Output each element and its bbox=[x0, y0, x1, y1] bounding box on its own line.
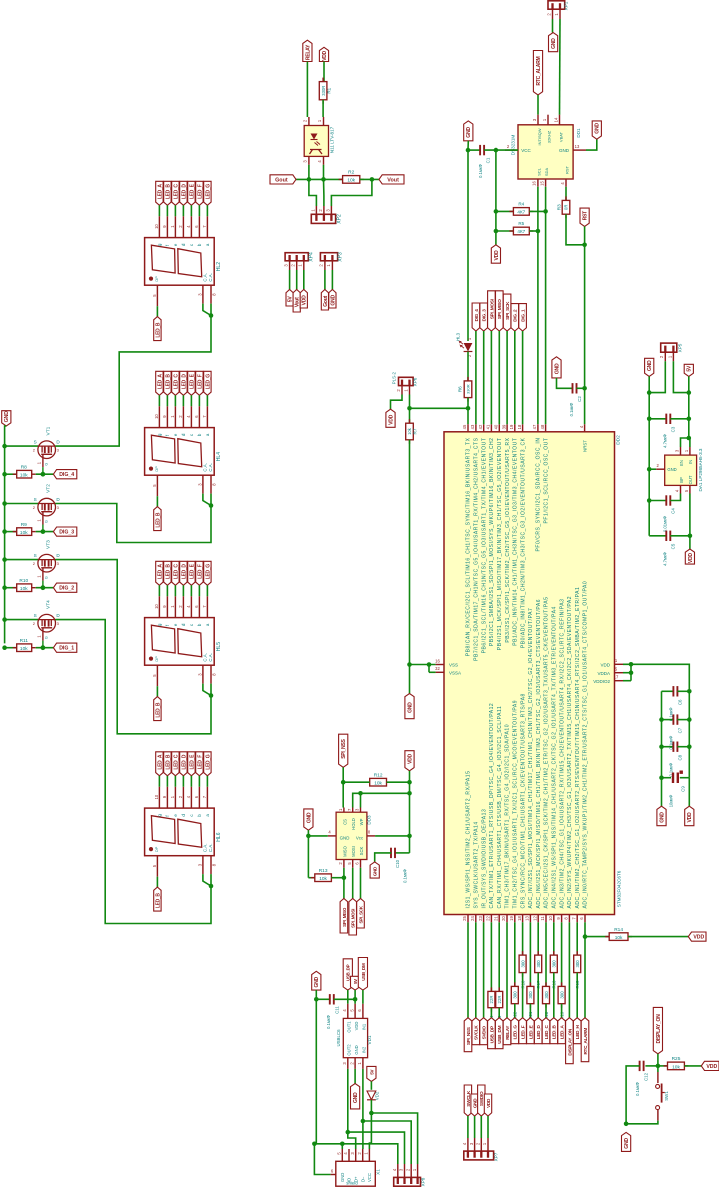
wire segment bbox=[156, 877, 158, 887]
svg-text:DD2: DD2 bbox=[616, 435, 622, 445]
svg-text:G: G bbox=[45, 636, 49, 639]
net label RELAY bbox=[303, 40, 312, 61]
wire D- branch bbox=[362, 1069, 364, 1121]
svg-text:24: 24 bbox=[470, 916, 475, 921]
svg-text:SPI_NSS: SPI_NSS bbox=[341, 738, 347, 758]
svg-text:VDDA: VDDA bbox=[597, 671, 610, 676]
wire USB_DM to pin6 bbox=[362, 990, 364, 1004]
resistor R11 10k bbox=[5, 647, 17, 649]
net label 5V bbox=[351, 976, 360, 990]
resistor R3 0R bbox=[565, 187, 567, 201]
wire segment bbox=[561, 922, 563, 986]
svg-text:LED_C: LED_C bbox=[173, 754, 179, 770]
svg-text:PB6/I2C1_SCL/TIM16_CH1N/TSC_G5: PB6/I2C1_SCL/TIM16_CH1N/TSC_G5_IO3/USART… bbox=[481, 438, 487, 654]
svg-text:VT3: VT3 bbox=[46, 540, 52, 549]
pin 9 bbox=[166, 596, 168, 617]
net label LED_B bbox=[164, 371, 171, 395]
svg-text:18: 18 bbox=[517, 424, 522, 429]
net label LED_G bbox=[204, 181, 211, 205]
svg-text:43: 43 bbox=[470, 424, 475, 429]
capacitor C4 0.01uF (BP) bbox=[649, 500, 666, 502]
svg-text:WP: WP bbox=[359, 818, 364, 825]
connector XP7 bbox=[464, 1151, 494, 1160]
wire segment bbox=[514, 922, 516, 986]
pin 45 bbox=[467, 424, 469, 432]
svg-text:TIM1_CH2/TSC_G4_IO1/USART1_TX/: TIM1_CH2/TSC_G4_IO1/USART1_TX/I2C1_SCL/R… bbox=[513, 700, 519, 909]
svg-text:LED_B: LED_B bbox=[155, 702, 161, 718]
svg-text:C.A.: C.A. bbox=[203, 844, 208, 853]
transistor VT2 (P-MOSFET) bbox=[38, 498, 56, 516]
net label SPI_NSS bbox=[464, 1018, 472, 1052]
net label LED_F bbox=[196, 752, 203, 776]
wire SCL to MCU PF1 bbox=[537, 187, 539, 425]
wire segment label to pin bbox=[198, 205, 200, 216]
svg-text:LED_E: LED_E bbox=[189, 373, 195, 389]
resistor R19 300 bbox=[561, 982, 563, 986]
svg-text:LED_E: LED_E bbox=[189, 183, 195, 199]
svg-text:GND: GND bbox=[624, 1138, 630, 1149]
svg-text:SPI_SCK: SPI_SCK bbox=[505, 301, 510, 320]
wire segment bbox=[568, 922, 570, 1017]
net label USB_DM bbox=[358, 958, 367, 991]
wire segment bbox=[156, 686, 158, 696]
svg-text:16: 16 bbox=[435, 658, 440, 663]
net label GND bbox=[657, 806, 666, 826]
wire gate node bbox=[36, 531, 54, 533]
net label LED_C bbox=[542, 1018, 550, 1044]
wire gate node bbox=[36, 473, 54, 475]
pin 19 bbox=[514, 424, 516, 432]
svg-text:GND: GND bbox=[559, 148, 570, 153]
svg-text:VCC: VCC bbox=[367, 1173, 372, 1182]
net label LED_E bbox=[188, 181, 195, 205]
svg-text:VT1: VT1 bbox=[46, 426, 52, 435]
wire label to MCU pin bbox=[475, 331, 477, 424]
svg-text:MOSI: MOSI bbox=[351, 846, 356, 857]
svg-text:RTC_ALARM: RTC_ALARM bbox=[536, 57, 542, 86]
svg-text:0.1мкФ: 0.1мкФ bbox=[635, 1082, 640, 1096]
resistor R5 4K7 bbox=[496, 230, 514, 232]
pin 8 bbox=[210, 475, 212, 493]
svg-text:LED_G: LED_G bbox=[205, 184, 211, 200]
svg-text:LED_G: LED_G bbox=[205, 374, 211, 390]
svg-text:SW1: SW1 bbox=[664, 1091, 669, 1101]
svg-text:GND: GND bbox=[473, 1098, 478, 1108]
svg-text:300: 300 bbox=[513, 991, 518, 999]
svg-text:LED_H: LED_H bbox=[575, 1024, 580, 1039]
svg-text:SVDIO: SVDIO bbox=[482, 1026, 487, 1040]
svg-text:4.7мкФ: 4.7мкФ bbox=[663, 434, 668, 448]
net label LED_D bbox=[180, 752, 187, 776]
svg-text:DIG_1: DIG_1 bbox=[59, 646, 74, 652]
svg-text:C.A.: C.A. bbox=[208, 653, 213, 662]
svg-text:GND: GND bbox=[373, 866, 378, 876]
wire shield to GND bbox=[314, 1144, 330, 1175]
svg-text:XP5: XP5 bbox=[678, 343, 683, 352]
svg-text:SPI_MISO: SPI_MISO bbox=[342, 907, 347, 927]
net label LED_B bbox=[164, 181, 171, 205]
svg-text:SWCLK: SWCLK bbox=[466, 1090, 471, 1107]
wire segment label to pin bbox=[182, 205, 184, 216]
wire XP1 pin1 to VBAT bbox=[559, 19, 562, 115]
svg-text:47: 47 bbox=[532, 424, 537, 429]
wire segment label to pin bbox=[174, 585, 176, 596]
wire VD2 to VCC net bbox=[370, 1100, 372, 1113]
svg-text:DD3: DD3 bbox=[367, 815, 372, 825]
svg-text:RTC_ALARM: RTC_ALARM bbox=[583, 1028, 588, 1055]
svg-text:LED_C: LED_C bbox=[173, 564, 179, 580]
pin 6 bbox=[198, 406, 200, 427]
net label LED_G bbox=[511, 1018, 519, 1044]
connector XP1 bbox=[548, 1, 565, 9]
svg-text:IN1: IN1 bbox=[361, 1023, 366, 1030]
svg-text:10k: 10k bbox=[319, 876, 327, 882]
svg-text:DP: DP bbox=[154, 276, 159, 282]
svg-text:GND: GND bbox=[659, 812, 665, 823]
net label VDD bbox=[688, 932, 706, 941]
svg-text:LED_A: LED_A bbox=[157, 754, 163, 770]
wire R7 down to VSS node bbox=[409, 440, 411, 665]
pin 6 bbox=[198, 787, 200, 808]
svg-text:DISPLAY_ON: DISPLAY_ON bbox=[656, 1014, 662, 1044]
svg-text:USBLC6: USBLC6 bbox=[336, 1029, 341, 1047]
wire VT3 drain to HL5 CA bbox=[55, 560, 211, 734]
svg-text:GND: GND bbox=[407, 702, 413, 713]
svg-text:VDD: VDD bbox=[388, 414, 394, 424]
wire 5V rail (right) bbox=[688, 376, 690, 438]
svg-text:LED_E: LED_E bbox=[189, 563, 195, 579]
svg-text:10k: 10k bbox=[407, 427, 412, 435]
wire segment label to pin bbox=[182, 395, 184, 406]
svg-text:LED_G: LED_G bbox=[205, 754, 211, 770]
svg-text:0.1мкФ: 0.1мкФ bbox=[569, 403, 574, 417]
svg-text:C.A.: C.A. bbox=[203, 463, 208, 472]
svg-text:EN: EN bbox=[679, 460, 684, 466]
capacitor C10 0.1uF bbox=[395, 852, 410, 854]
svg-text:DP: DP bbox=[154, 656, 159, 662]
connector X1 USB bbox=[336, 1161, 376, 1186]
net label LED_E bbox=[527, 1018, 535, 1044]
svg-text:G: G bbox=[45, 576, 49, 579]
svg-text:PB7/I2C1_SDA/TIM17_CH1N/TSC_G5: PB7/I2C1_SDA/TIM17_CH1N/TSC_G5_IO4/USART… bbox=[474, 437, 480, 661]
svg-text:LED_D: LED_D bbox=[181, 374, 187, 390]
display HL5 (7-segment) bbox=[145, 618, 215, 666]
pin 7 bbox=[206, 216, 208, 237]
pin 3 bbox=[202, 665, 204, 683]
svg-text:Gout: Gout bbox=[275, 177, 288, 183]
net label GND bbox=[622, 1132, 631, 1151]
pin 6 bbox=[198, 216, 200, 237]
pin 19 bbox=[514, 915, 516, 923]
svg-text:19: 19 bbox=[509, 916, 514, 921]
wire source to rail bbox=[5, 559, 39, 561]
net label SPI_SCK bbox=[357, 899, 365, 929]
wire label to MCU pin bbox=[522, 331, 524, 424]
net label LED_F bbox=[519, 1018, 527, 1044]
wire R25 to VDD bbox=[684, 1065, 701, 1067]
svg-text:HL2: HL2 bbox=[216, 262, 222, 271]
net label LED_E bbox=[188, 371, 195, 395]
svg-text:10k: 10k bbox=[615, 935, 623, 941]
wire segment label to pin bbox=[198, 585, 200, 596]
svg-text:VDD: VDD bbox=[706, 1064, 717, 1070]
svg-text:GND: GND bbox=[353, 1092, 359, 1103]
svg-text:C.A.: C.A. bbox=[208, 844, 213, 853]
svg-text:VDD: VDD bbox=[687, 812, 693, 822]
pin 1 bbox=[174, 787, 176, 808]
wire XP4 pins to labels bbox=[289, 270, 291, 290]
svg-text:4.7мкФ: 4.7мкФ bbox=[663, 552, 668, 566]
wire segment bbox=[467, 922, 469, 1017]
wire segment bbox=[475, 922, 477, 1017]
wire segment bbox=[522, 973, 524, 1018]
svg-text:10: 10 bbox=[154, 414, 159, 419]
svg-text:LED_E: LED_E bbox=[189, 754, 195, 770]
wire RTC_ALARM to pin3 bbox=[537, 95, 539, 115]
wire VDD line bbox=[409, 771, 411, 853]
net label Gout bbox=[270, 175, 296, 184]
svg-text:LED_D: LED_D bbox=[181, 564, 187, 580]
display HL6 (7-segment) bbox=[145, 808, 215, 856]
wire VT1 drain to HL2 CA bbox=[55, 316, 211, 447]
svg-text:OUT2: OUT2 bbox=[347, 1044, 352, 1056]
net label LED_C bbox=[172, 561, 179, 585]
wire GND row to X1/XP8 bbox=[316, 1144, 398, 1164]
wire VT4 drain to HL6 CA bbox=[55, 620, 211, 924]
pin 4 NRST bbox=[584, 424, 586, 432]
svg-text:USB_DM: USB_DM bbox=[361, 963, 366, 981]
svg-text:GND: GND bbox=[647, 360, 653, 371]
wire segment bbox=[576, 922, 578, 955]
svg-text:4К7: 4К7 bbox=[517, 210, 525, 215]
wire Gout row bbox=[296, 178, 343, 180]
wire R12 leads bbox=[343, 781, 370, 783]
wire segment bbox=[553, 973, 555, 1018]
svg-text:LED_B: LED_B bbox=[552, 1024, 557, 1039]
wire R2 to Vout bbox=[360, 178, 379, 180]
svg-text:22R: 22R bbox=[497, 996, 502, 1004]
net label LED_B bbox=[154, 887, 161, 911]
svg-text:10k: 10k bbox=[20, 473, 28, 479]
wire to VDD label bbox=[688, 778, 690, 807]
svg-text:XP1: XP1 bbox=[564, 1, 569, 10]
wire source to rail bbox=[5, 445, 39, 447]
wire label to MCU pin bbox=[514, 331, 516, 424]
svg-text:LED_F: LED_F bbox=[521, 1025, 526, 1039]
capacitor C12 0.1uF bbox=[645, 1065, 658, 1067]
wire CA join bbox=[203, 874, 211, 886]
wire pullup row to HL3 line bbox=[410, 407, 469, 409]
wire segment bbox=[498, 1008, 500, 1018]
net label Vout bbox=[379, 175, 404, 184]
svg-text:PB0/ADC_IN8/TIM1_CH2N/TIM3_CH3: PB0/ADC_IN8/TIM1_CH2N/TIM3_CH3/TSC_G3_IO… bbox=[520, 437, 526, 648]
resistor R1 330R bbox=[322, 78, 324, 82]
pin 48 PF1 bbox=[545, 424, 547, 432]
resistor R16 300 bbox=[553, 951, 555, 955]
svg-text:R25: R25 bbox=[672, 1056, 681, 1062]
wire VD1 pin2 to GND bbox=[354, 1069, 356, 1084]
net label DIG_2 bbox=[511, 304, 519, 331]
wire segment bbox=[156, 306, 158, 316]
wire VCC to XP8 pin1 bbox=[371, 1113, 417, 1164]
svg-text:15: 15 bbox=[539, 181, 544, 186]
svg-text:S: S bbox=[34, 613, 37, 618]
svg-text:19: 19 bbox=[509, 424, 514, 429]
IC DD1 DS3231 bbox=[518, 125, 573, 179]
resistor R15 300 bbox=[576, 951, 578, 955]
net label VDD bbox=[484, 1094, 491, 1116]
svg-text:DIG_2: DIG_2 bbox=[59, 586, 74, 592]
wire VDD to R1 bbox=[323, 62, 325, 82]
svg-text:C5: C5 bbox=[671, 543, 676, 549]
net label Vout bbox=[293, 290, 300, 313]
svg-text:PB4/I2S1_MCK/SPI1_MISO/TIM17_B: PB4/I2S1_MCK/SPI1_MISO/TIM17_BKIN/TIM3_C… bbox=[497, 438, 503, 651]
net label LED_E bbox=[188, 561, 195, 585]
wire source to rail bbox=[5, 503, 39, 505]
svg-text:10мкФ: 10мкФ bbox=[669, 795, 674, 808]
svg-text:TIM1_CH3/TIM17_BKIN/USART1_RX/: TIM1_CH3/TIM17_BKIN/USART1_RX/TSC_G4_IO2… bbox=[505, 724, 511, 909]
wire cap vdd rail bbox=[688, 691, 690, 777]
net label DISPLAY_ON bbox=[653, 1007, 662, 1053]
connector XP5 bbox=[661, 343, 677, 352]
net label RELAY bbox=[503, 1018, 511, 1045]
wire R3 to RST node bbox=[566, 214, 585, 245]
net label GND bbox=[312, 971, 321, 990]
svg-text:RST: RST bbox=[565, 165, 570, 174]
svg-text:LED_B: LED_B bbox=[165, 184, 171, 200]
svg-text:LED_D: LED_D bbox=[181, 754, 187, 770]
svg-text:NRST: NRST bbox=[583, 440, 588, 452]
wire segment bbox=[545, 922, 547, 986]
pin 7 bbox=[206, 596, 208, 617]
svg-text:R6: R6 bbox=[458, 386, 463, 392]
pin 8 bbox=[210, 665, 212, 683]
svg-text:11: 11 bbox=[540, 916, 545, 921]
svg-text:R7: R7 bbox=[413, 428, 418, 434]
wire SW1 to GND bbox=[626, 1121, 658, 1124]
capacitor C7 0.1мкФ bbox=[662, 719, 674, 721]
svg-text:10k: 10k bbox=[20, 646, 28, 652]
svg-text:PB8/CAN_RX/CEC/I2C1_SCL/TIM16_: PB8/CAN_RX/CEC/I2C1_SCL/TIM16_CH1/TSC_SY… bbox=[466, 437, 472, 656]
capacitor C2 0.1uF bbox=[557, 378, 573, 388]
wire segment label to pin bbox=[190, 205, 192, 216]
net label RST bbox=[580, 208, 589, 226]
wire XP3 pins to labels bbox=[324, 270, 326, 290]
wire opto pin4 to XP2 pin2 bbox=[323, 165, 325, 180]
pin 7 bbox=[576, 915, 578, 923]
svg-text:12: 12 bbox=[532, 916, 537, 921]
svg-text:DD1: DD1 bbox=[576, 128, 581, 138]
svg-text:LED_F: LED_F bbox=[197, 374, 203, 389]
wire GND down bbox=[315, 990, 317, 1144]
pin 8 bbox=[568, 915, 570, 923]
svg-text:0.1мкФ: 0.1мкФ bbox=[403, 869, 408, 883]
net label 5V bbox=[286, 290, 293, 307]
net label VDD bbox=[405, 751, 414, 771]
net label VDD bbox=[491, 245, 500, 263]
IC DD2 STM32F042C6T7 bbox=[444, 432, 615, 915]
svg-text:C1: C1 bbox=[486, 157, 491, 163]
svg-text:LED_E: LED_E bbox=[528, 1025, 533, 1039]
resistor R21 300 bbox=[529, 982, 531, 986]
svg-text:GND: GND bbox=[340, 836, 350, 841]
svg-text:10k: 10k bbox=[374, 781, 382, 787]
pin 10 bbox=[158, 406, 160, 427]
svg-text:LED_F: LED_F bbox=[197, 184, 203, 199]
svg-text:10k: 10k bbox=[20, 530, 28, 536]
svg-text:C6: C6 bbox=[678, 699, 683, 705]
wire segment bbox=[545, 1004, 547, 1018]
svg-text:G: G bbox=[45, 520, 49, 523]
net label LED_C bbox=[172, 371, 179, 395]
svg-text:23: 23 bbox=[478, 916, 483, 921]
wire segment bbox=[156, 496, 158, 506]
resistor R20 300 bbox=[545, 982, 547, 986]
wire GND to C1 and HL3 line bbox=[467, 141, 469, 341]
svg-text:PB1/ADC_IN9/TIM14_CH1/TIM1_CH3: PB1/ADC_IN9/TIM14_CH1/TIM1_CH3N/TSC_G3_I… bbox=[513, 438, 519, 646]
svg-text:LED_C: LED_C bbox=[173, 374, 179, 390]
svg-text:RELAY: RELAY bbox=[505, 1025, 510, 1040]
transistor VT3 (P-MOSFET) bbox=[38, 554, 56, 572]
svg-text:10: 10 bbox=[154, 794, 159, 799]
svg-text:SWDIO: SWDIO bbox=[479, 1091, 484, 1106]
svg-text:LED_B: LED_B bbox=[165, 754, 171, 770]
svg-text:HOLD: HOLD bbox=[351, 818, 356, 830]
svg-text:C12: C12 bbox=[644, 1072, 649, 1081]
wire XP6 pin2 to VDD bbox=[391, 395, 403, 410]
svg-text:PLS-2: PLS-2 bbox=[392, 371, 397, 384]
net label SPI_MISO bbox=[340, 899, 348, 934]
svg-text:ADC_IN4/I2S1_WS/SPI1_NSS/TIM14: ADC_IN4/I2S1_WS/SPI1_NSS/TIM14_CH1/USART… bbox=[552, 606, 558, 908]
svg-text:LED_D: LED_D bbox=[181, 184, 187, 200]
net label GND bbox=[405, 694, 414, 719]
net label LED_D bbox=[180, 371, 187, 395]
net label USB_DM bbox=[495, 1018, 503, 1049]
net label LED_A bbox=[558, 1018, 566, 1044]
svg-text:MISO: MISO bbox=[343, 845, 348, 856]
pin 41 bbox=[490, 424, 492, 432]
pin 16 VSS bbox=[436, 664, 444, 666]
capacitor C6 0.1мкФ bbox=[662, 690, 674, 692]
resistor R17 300 bbox=[537, 951, 539, 955]
pin 3 bbox=[202, 475, 204, 493]
svg-text:42: 42 bbox=[478, 424, 483, 429]
wire segment bbox=[490, 1008, 492, 1018]
svg-text:I2S1_WS/SPI1_NSS/TIM2_CH1/USAR: I2S1_WS/SPI1_NSS/TIM2_CH1/USART2_RX/PA15 bbox=[466, 771, 472, 909]
wire 5V to pin5 bbox=[354, 990, 356, 1004]
wire segment label to pin bbox=[190, 776, 192, 787]
svg-text:R4: R4 bbox=[518, 202, 524, 207]
pin 9 bbox=[561, 915, 563, 923]
net label GND bbox=[370, 862, 379, 878]
wire opto pin3 to XP2 pin1 bbox=[308, 165, 310, 180]
wire segment label to pin bbox=[158, 205, 160, 216]
svg-text:10k: 10k bbox=[672, 1064, 680, 1070]
wire segment bbox=[584, 922, 586, 1017]
svg-text:PF0/CRS_SYNC/I2C1_SDA/RCC_OSC_: PF0/CRS_SYNC/I2C1_SDA/RCC_OSC_IN bbox=[536, 438, 542, 552]
svg-text:R8: R8 bbox=[21, 465, 27, 471]
svg-text:LED_B: LED_B bbox=[165, 564, 171, 580]
svg-text:32: 32 bbox=[435, 666, 440, 671]
svg-text:R10: R10 bbox=[19, 578, 28, 584]
svg-text:PB5/I2C1_SMBA/I2S1_SD/SPI1_MOS: PB5/I2C1_SMBA/I2S1_SD/SPI1_MOSI/SYS_WKUP… bbox=[489, 438, 495, 647]
wire segment bbox=[506, 922, 508, 1017]
svg-text:DA1 LP2985AH5-3.3: DA1 LP2985AH5-3.3 bbox=[698, 448, 703, 491]
svg-text:RST: RST bbox=[583, 210, 589, 220]
pin 17 VDDIO2 bbox=[615, 680, 624, 682]
net label LED_B bbox=[550, 1018, 558, 1044]
svg-text:VDDIO2: VDDIO2 bbox=[593, 679, 610, 684]
